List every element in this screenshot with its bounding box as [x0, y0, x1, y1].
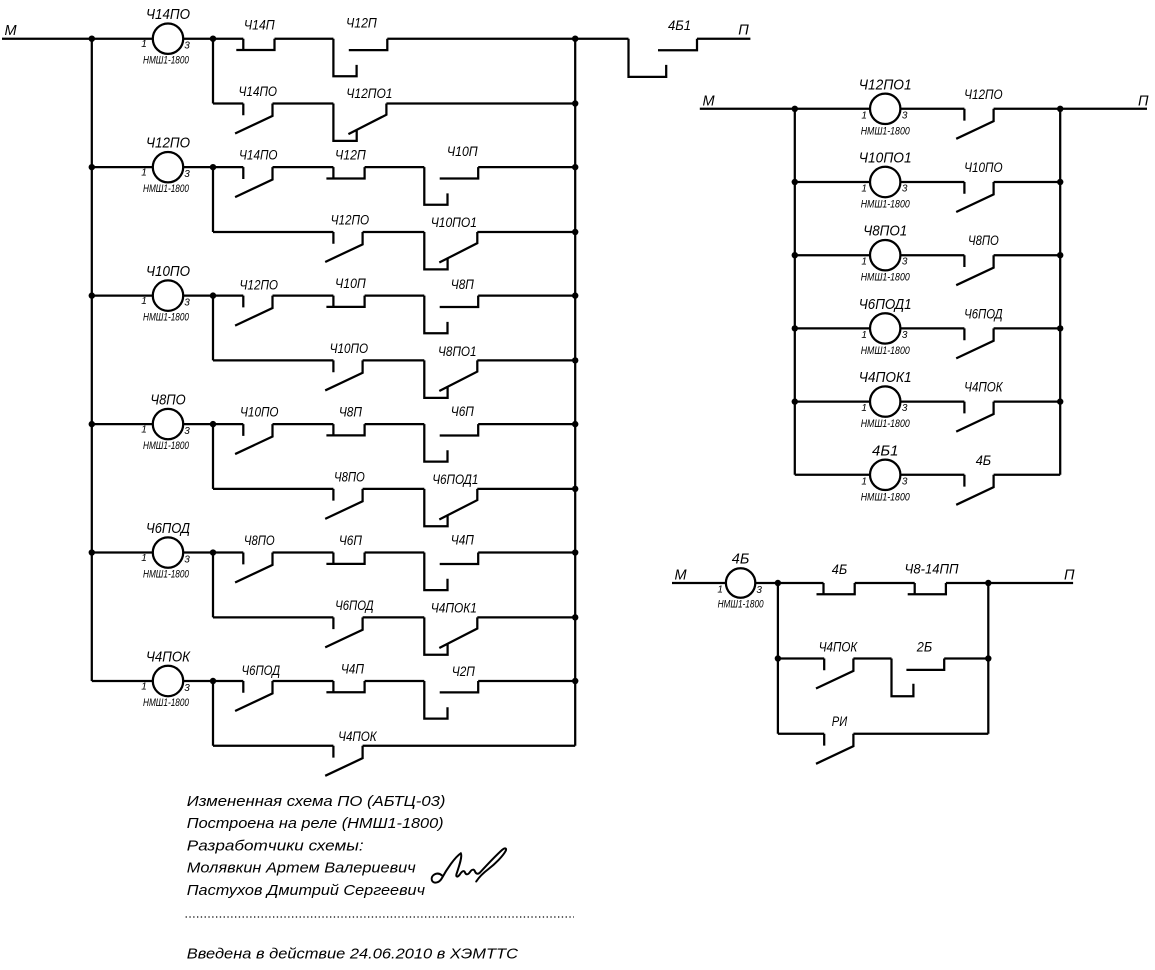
svg-text:Ч6ПОД1: Ч6ПОД1: [432, 471, 478, 487]
svg-text:Ч14ПО: Ч14ПО: [146, 6, 190, 23]
svg-text:Ч4П: Ч4П: [341, 661, 365, 677]
svg-text:Ч6ПОД: Ч6ПОД: [335, 597, 374, 613]
svg-text:НМШ1-1800: НМШ1-1800: [718, 599, 765, 611]
svg-text:НМШ1-1800: НМШ1-1800: [143, 697, 190, 709]
svg-text:М: М: [702, 94, 715, 110]
svg-text:НМШ1-1800: НМШ1-1800: [861, 345, 911, 357]
svg-text:Введена в действие 24.06.2010: Введена в действие 24.06.2010 в ХЭМТТС: [187, 947, 519, 963]
svg-text:3: 3: [184, 426, 190, 437]
svg-text:4Б: 4Б: [976, 452, 991, 468]
svg-text:1: 1: [861, 403, 867, 414]
svg-text:4Б1: 4Б1: [668, 17, 691, 33]
svg-text:Ч14П: Ч14П: [244, 17, 276, 33]
svg-text:Ч4ПОК: Ч4ПОК: [819, 639, 858, 655]
svg-text:Ч10ПО: Ч10ПО: [146, 263, 190, 280]
svg-text:1: 1: [861, 184, 867, 195]
svg-text:М: М: [675, 568, 688, 584]
svg-text:1: 1: [861, 257, 867, 268]
svg-text:НМШ1-1800: НМШ1-1800: [861, 491, 911, 503]
svg-text:Разработчики схемы:: Разработчики схемы:: [187, 838, 364, 854]
svg-text:Ч12ПО: Ч12ПО: [964, 86, 1003, 102]
svg-text:Ч12ПО: Ч12ПО: [146, 135, 190, 152]
svg-text:Ч4ПОК: Ч4ПОК: [146, 649, 191, 666]
svg-text:Ч10ПО: Ч10ПО: [330, 340, 369, 356]
svg-text:3: 3: [902, 330, 908, 341]
svg-text:Ч12ПО: Ч12ПО: [331, 211, 370, 227]
svg-text:Ч8ПО: Ч8ПО: [334, 468, 365, 484]
svg-text:Ч4ПОК: Ч4ПОК: [338, 728, 377, 744]
svg-text:Ч12ПО1: Ч12ПО1: [346, 85, 392, 101]
svg-text:НМШ1-1800: НМШ1-1800: [861, 272, 911, 284]
svg-text:РИ: РИ: [832, 713, 848, 729]
svg-text:3: 3: [184, 298, 190, 309]
svg-text:Пастухов Дмитрий Сергеевич: Пастухов Дмитрий Сергеевич: [187, 883, 426, 899]
svg-text:Построена на реле (НМШ1-1800): Построена на реле (НМШ1-1800): [187, 816, 444, 832]
svg-text:НМШ1-1800: НМШ1-1800: [143, 55, 190, 67]
svg-text:Измененная схема ПО (АБТЦ-03): Измененная схема ПО (АБТЦ-03): [187, 794, 446, 810]
svg-text:Ч8П: Ч8П: [339, 404, 363, 420]
svg-text:1: 1: [141, 296, 147, 307]
svg-text:Ч6ПОД: Ч6ПОД: [146, 520, 190, 537]
svg-text:Ч10ПО: Ч10ПО: [240, 404, 279, 420]
svg-text:1: 1: [141, 39, 147, 50]
svg-text:3: 3: [902, 184, 908, 195]
svg-text:Ч8-14ПП: Ч8-14ПП: [905, 561, 960, 577]
svg-text:Молявкин Артем Валериевич: Молявкин Артем Валериевич: [187, 861, 416, 877]
svg-text:Ч8ПО1: Ч8ПО1: [863, 223, 907, 240]
svg-text:3: 3: [902, 476, 908, 487]
svg-text:3: 3: [902, 257, 908, 268]
svg-text:Ч6П: Ч6П: [339, 532, 363, 548]
svg-text:1: 1: [717, 585, 723, 596]
svg-text:Ч10П: Ч10П: [335, 275, 367, 291]
svg-text:Ч6ПОД1: Ч6ПОД1: [859, 296, 912, 313]
svg-text:Ч6ПОД: Ч6ПОД: [964, 305, 1003, 321]
svg-text:Ч14ПО: Ч14ПО: [239, 83, 278, 99]
svg-text:НМШ1-1800: НМШ1-1800: [861, 125, 911, 137]
svg-text:Ч8П: Ч8П: [451, 276, 475, 292]
svg-text:1: 1: [861, 110, 867, 121]
svg-text:1: 1: [141, 168, 147, 179]
svg-text:Ч4ПОК1: Ч4ПОК1: [431, 599, 477, 615]
svg-text:НМШ1-1800: НМШ1-1800: [143, 569, 190, 581]
svg-text:3: 3: [756, 585, 762, 596]
svg-text:Ч8ПО1: Ч8ПО1: [438, 343, 477, 359]
svg-text:Ч8ПО: Ч8ПО: [150, 392, 185, 409]
svg-text:Ч10П: Ч10П: [447, 143, 479, 159]
svg-text:НМШ1-1800: НМШ1-1800: [143, 183, 190, 195]
svg-text:1: 1: [141, 425, 147, 436]
svg-text:3: 3: [184, 555, 190, 566]
svg-text:3: 3: [184, 683, 190, 694]
svg-text:1: 1: [141, 682, 147, 693]
svg-text:Ч4ПОК: Ч4ПОК: [964, 379, 1003, 395]
svg-text:Ч8ПО: Ч8ПО: [244, 532, 275, 548]
svg-text:Ч10ПО1: Ч10ПО1: [431, 214, 477, 230]
svg-text:Ч10ПО: Ч10ПО: [964, 159, 1003, 175]
svg-text:Ч14ПО: Ч14ПО: [239, 147, 278, 163]
svg-text:4Б: 4Б: [732, 551, 750, 568]
svg-text:П: П: [738, 23, 749, 39]
svg-text:Ч12ПО1: Ч12ПО1: [859, 76, 912, 93]
svg-text:2Б: 2Б: [916, 639, 932, 655]
svg-text:Ч4П: Ч4П: [451, 532, 475, 548]
svg-text:Ч4ПОК1: Ч4ПОК1: [859, 369, 912, 386]
svg-text:Ч6П: Ч6П: [451, 403, 475, 419]
svg-text:Ч8ПО: Ч8ПО: [968, 232, 999, 248]
svg-text:1: 1: [861, 476, 867, 487]
svg-text:Ч12ПО: Ч12ПО: [240, 277, 279, 293]
svg-text:1: 1: [861, 330, 867, 341]
svg-text:1: 1: [141, 553, 147, 564]
svg-text:НМШ1-1800: НМШ1-1800: [143, 312, 190, 324]
svg-text:П: П: [1064, 568, 1075, 584]
svg-text:Ч12П: Ч12П: [346, 15, 378, 31]
svg-text:Ч10ПО1: Ч10ПО1: [859, 150, 912, 167]
svg-text:Ч6ПОД: Ч6ПОД: [242, 662, 281, 678]
svg-text:Ч2П: Ч2П: [452, 663, 476, 679]
svg-text:НМШ1-1800: НМШ1-1800: [861, 418, 911, 430]
svg-text:3: 3: [902, 110, 908, 121]
svg-text:3: 3: [902, 403, 908, 414]
svg-text:4Б1: 4Б1: [872, 442, 898, 459]
svg-text:П: П: [1138, 94, 1149, 110]
svg-text:4Б: 4Б: [832, 561, 847, 577]
svg-text:3: 3: [184, 41, 190, 52]
svg-text:Ч12П: Ч12П: [335, 147, 367, 163]
svg-text:М: М: [4, 23, 17, 39]
svg-text:НМШ1-1800: НМШ1-1800: [143, 440, 190, 452]
svg-text:НМШ1-1800: НМШ1-1800: [861, 199, 911, 211]
svg-text:3: 3: [184, 169, 190, 180]
